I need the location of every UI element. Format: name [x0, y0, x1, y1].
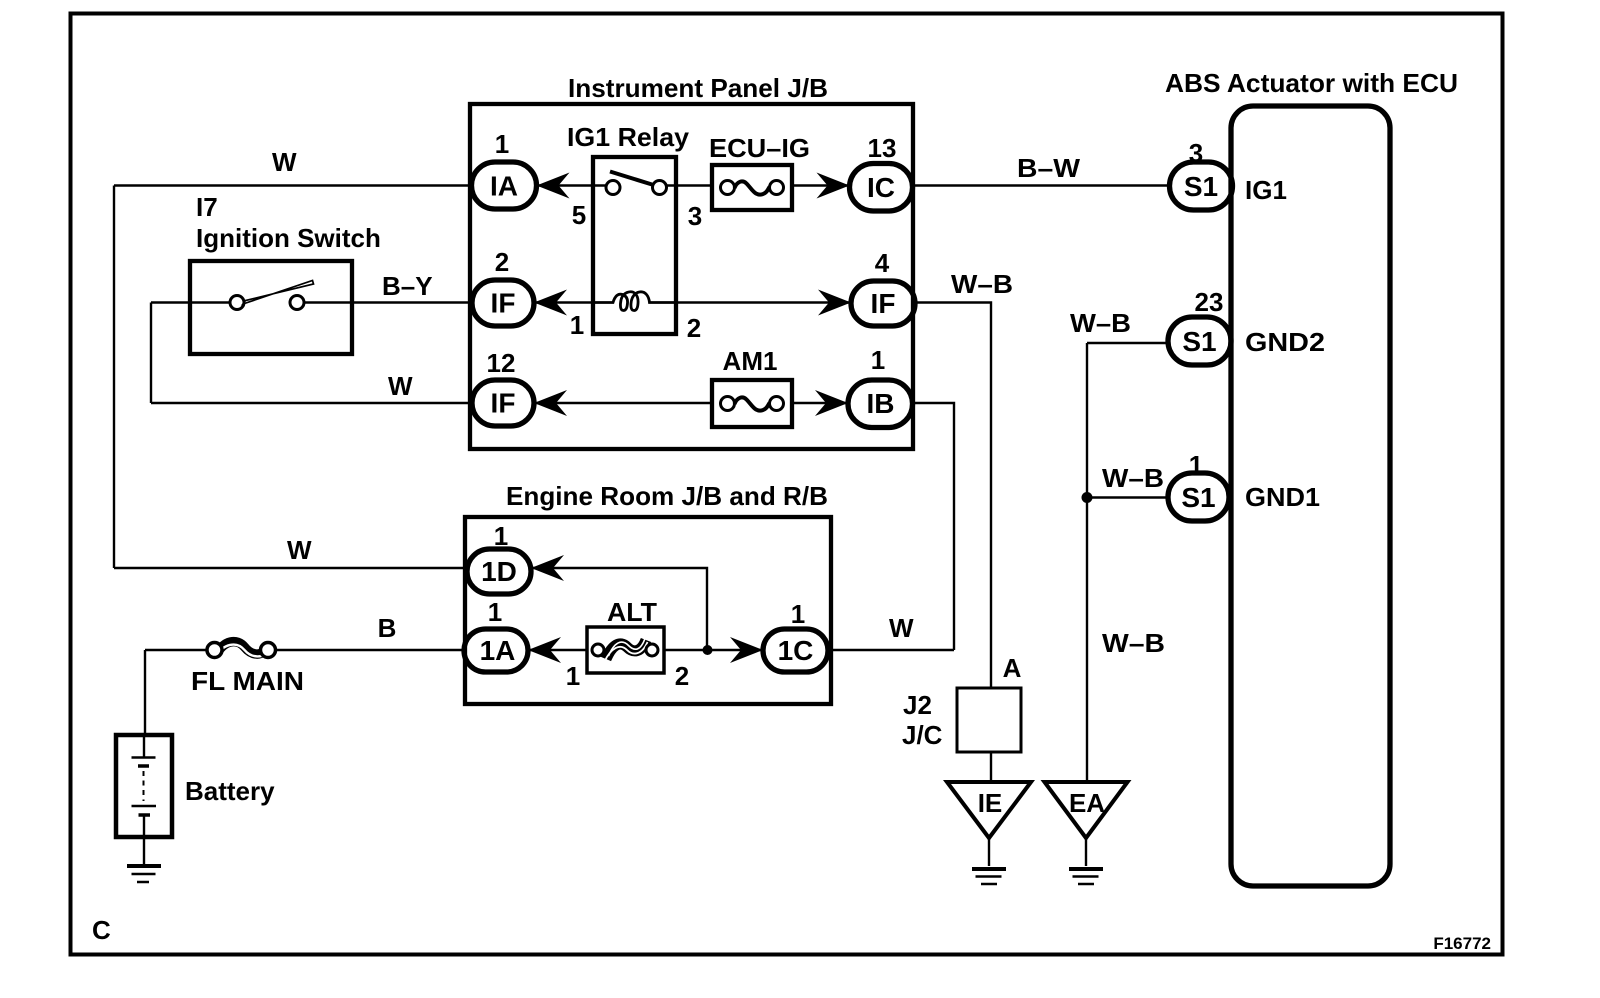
svg-text:Instrument Panel J/B: Instrument Panel J/B: [568, 73, 828, 103]
svg-text:1: 1: [495, 129, 509, 159]
svg-text:C: C: [92, 915, 111, 945]
svg-text:Battery: Battery: [185, 776, 275, 806]
svg-text:IG1 Relay: IG1 Relay: [567, 122, 690, 152]
svg-text:2: 2: [687, 313, 701, 343]
svg-text:ECU–IG: ECU–IG: [709, 133, 810, 163]
svg-text:4: 4: [875, 248, 890, 278]
svg-text:J2: J2: [903, 690, 932, 720]
svg-text:1: 1: [566, 661, 580, 691]
svg-text:W–B: W–B: [1102, 463, 1164, 493]
svg-text:Ignition Switch: Ignition Switch: [196, 223, 381, 253]
svg-text:GND1: GND1: [1245, 482, 1320, 512]
svg-text:AM1: AM1: [723, 346, 778, 376]
svg-text:1: 1: [494, 521, 508, 551]
svg-text:FL MAIN: FL MAIN: [191, 666, 304, 696]
svg-text:A: A: [1003, 653, 1022, 683]
svg-text:IF: IF: [491, 388, 516, 419]
svg-text:B: B: [378, 613, 397, 643]
svg-text:S1: S1: [1182, 326, 1216, 357]
svg-text:1: 1: [791, 599, 805, 629]
svg-text:IA: IA: [490, 171, 518, 202]
svg-text:IG1: IG1: [1245, 175, 1287, 205]
svg-text:W: W: [287, 535, 312, 565]
svg-text:2: 2: [675, 661, 689, 691]
svg-text:J/C: J/C: [902, 720, 943, 750]
svg-text:EA: EA: [1069, 788, 1105, 818]
svg-text:IB: IB: [867, 388, 895, 419]
svg-text:2: 2: [495, 247, 509, 277]
svg-text:S1: S1: [1181, 482, 1215, 513]
svg-text:13: 13: [868, 133, 897, 163]
svg-text:IC: IC: [867, 172, 895, 203]
svg-text:12: 12: [487, 348, 516, 378]
svg-text:W–B: W–B: [1070, 308, 1131, 338]
svg-text:3: 3: [688, 201, 702, 231]
svg-text:W–B: W–B: [951, 269, 1013, 299]
svg-text:W–B: W–B: [1102, 628, 1165, 658]
svg-text:I7: I7: [196, 192, 218, 222]
svg-text:1: 1: [871, 345, 885, 375]
svg-text:3: 3: [1189, 138, 1203, 168]
svg-text:1: 1: [1189, 450, 1203, 480]
svg-text:B–Y: B–Y: [382, 271, 433, 301]
svg-text:1D: 1D: [481, 556, 517, 587]
svg-text:W: W: [272, 147, 297, 177]
svg-text:Engine Room J/B and R/B: Engine Room J/B and R/B: [506, 481, 828, 511]
svg-text:5: 5: [572, 200, 586, 230]
svg-text:S1: S1: [1184, 171, 1218, 202]
svg-text:1A: 1A: [480, 635, 516, 666]
svg-text:1: 1: [570, 310, 584, 340]
svg-text:F16772: F16772: [1433, 934, 1491, 953]
svg-text:GND2: GND2: [1245, 327, 1325, 357]
svg-text:ABS Actuator with ECU: ABS Actuator with ECU: [1165, 68, 1458, 98]
svg-text:IF: IF: [871, 288, 896, 319]
svg-text:23: 23: [1195, 287, 1224, 317]
svg-text:IE: IE: [978, 788, 1003, 818]
svg-text:W: W: [889, 613, 914, 643]
svg-text:ALT: ALT: [607, 597, 657, 627]
svg-text:1C: 1C: [778, 635, 814, 666]
svg-text:1: 1: [488, 597, 502, 627]
svg-text:W: W: [388, 371, 413, 401]
svg-text:B–W: B–W: [1017, 153, 1080, 183]
svg-text:IF: IF: [491, 288, 516, 319]
